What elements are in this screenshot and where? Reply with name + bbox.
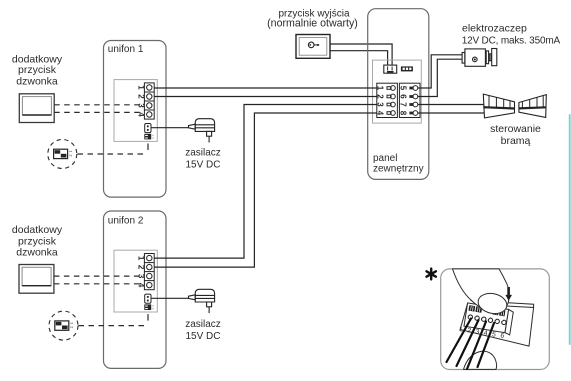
wire panel pin6 to strike <box>418 59 463 96</box>
svg-text:12V DC, maks. 350mA: 12V DC, maks. 350mA <box>462 36 561 47</box>
label sterowanie brama <box>490 123 541 147</box>
svg-text:1: 1 <box>137 256 146 261</box>
doorbell button B2 <box>19 265 54 294</box>
asterisk note marker <box>427 269 436 280</box>
DIP switch U2 <box>144 304 153 310</box>
svg-text:(normalnie otwarty): (normalnie otwarty) <box>267 17 358 29</box>
pin labels 1-4 panel <box>375 86 384 116</box>
power jack U2 <box>145 294 151 303</box>
svg-text:2: 2 <box>137 94 146 99</box>
keyhole terminal 1 <box>387 86 395 91</box>
label zasilacz 15V DC (top) <box>185 147 221 170</box>
dashed wire B2 to U2 pin 3 <box>54 275 144 277</box>
wire U2 jack to PSU Z2 <box>151 297 189 299</box>
dashed link U1 to switch S1 <box>78 153 147 155</box>
label przycisk wyjscia <box>267 9 358 30</box>
unifon U1 inner panel <box>114 80 157 142</box>
DIP switch SW panel <box>401 66 413 71</box>
label elektrozaczep <box>462 22 561 46</box>
svg-text:zewnętrzny: zewnętrzny <box>373 164 424 175</box>
svg-text:dzwonka: dzwonka <box>16 75 58 87</box>
svg-text:3: 3 <box>137 103 146 108</box>
electric strike E1 icon <box>462 49 497 67</box>
finger illustration <box>453 269 510 312</box>
svg-text:15V DC: 15V DC <box>185 159 220 170</box>
svg-text:elektrozaczep: elektrozaczep <box>462 22 527 34</box>
svg-text:15V DC: 15V DC <box>185 331 220 342</box>
keyhole terminal 2 <box>387 94 395 99</box>
unifon U1 enclosure <box>104 41 167 198</box>
pin labels 5-8 panel <box>399 86 408 116</box>
scroll indicator teal <box>569 114 571 345</box>
volume switch S1 dashed circle <box>48 140 77 169</box>
keyhole terminal 3 <box>387 102 395 107</box>
svg-text:unifon 2: unifon 2 <box>108 216 144 227</box>
label zasilacz 15V DC (bottom) <box>185 319 221 342</box>
DIP switch U1 <box>144 134 153 140</box>
wire PW to panel connector (upper) <box>330 44 392 65</box>
pin labels 1-4 U1 <box>137 85 146 117</box>
svg-text:4: 4 <box>137 112 146 117</box>
terminal strip right (5-8) <box>399 83 420 117</box>
svg-text:6: 6 <box>399 94 408 99</box>
unifon U2 enclosure <box>104 211 167 368</box>
panel inner plate <box>373 60 422 123</box>
wire U2 pin1 to panel pin3 <box>154 105 377 259</box>
svg-text:zasilacz: zasilacz <box>185 319 221 330</box>
wire panel pin8 to gate <box>418 112 485 114</box>
panel enclosure <box>368 9 429 180</box>
wire U1 jack to PSU Z1 <box>151 127 189 129</box>
dashed stub U1 bottom <box>147 144 149 151</box>
wire U1 pin2 to panel pin2 <box>154 96 377 98</box>
note wires x4 <box>447 319 495 370</box>
pin labels 1-4 U2 <box>137 256 146 288</box>
svg-text:bramą: bramą <box>501 135 531 147</box>
power jack U1 <box>145 124 151 133</box>
svg-text:8: 8 <box>399 111 408 116</box>
fingertip <box>476 291 508 316</box>
dashed link U2 to switch S2 <box>79 325 147 327</box>
svg-text:zasilacz: zasilacz <box>185 147 221 158</box>
terminal strip left (1-4) <box>377 83 398 117</box>
exit button PW icon <box>296 35 330 59</box>
arrow down <box>505 287 512 301</box>
terminal strip in note (tilted) <box>458 302 513 341</box>
svg-text:1: 1 <box>137 85 146 90</box>
key symbol <box>308 42 319 48</box>
doorbell button B1 <box>19 94 54 123</box>
volume switch S2 dashed circle <box>49 311 78 340</box>
keyhole terminal 8 <box>409 111 417 116</box>
svg-text:5: 5 <box>399 86 408 91</box>
svg-text:2: 2 <box>137 265 146 270</box>
terminal block U2 pins 1-4 <box>144 254 154 290</box>
mounting plate <box>460 301 533 347</box>
label dodatkowy przycisk dzwonka (bottom) <box>12 224 63 258</box>
wire panel pin7 to gate <box>418 104 485 106</box>
svg-text:7: 7 <box>399 102 408 107</box>
dashed stub U2 bottom <box>147 314 149 321</box>
keyhole terminal 7 <box>409 102 417 107</box>
svg-text:unifon 1: unifon 1 <box>108 44 144 55</box>
svg-text:przycisk: przycisk <box>18 64 57 76</box>
gate icon right wing <box>519 95 546 118</box>
keyhole terminal 4 <box>387 111 395 116</box>
svg-text:sterowanie: sterowanie <box>490 123 541 135</box>
svg-text:dzwonka: dzwonka <box>16 246 58 258</box>
wire panel pin5 to strike <box>418 55 463 88</box>
power supply Z2 (zasilacz) <box>189 289 215 313</box>
dashed wire B2 to U2 pin 4 <box>54 283 144 285</box>
gate icon left wing <box>483 94 514 118</box>
note frame <box>441 269 550 370</box>
dashed wire B1 to U1 pin 4 <box>54 111 143 113</box>
keyhole terminal 6 <box>409 94 417 99</box>
power supply Z1 (zasilacz) <box>189 119 215 143</box>
wire U2 pin2 to panel pin4 <box>154 113 377 267</box>
wire PW to panel connector (lower) <box>330 51 388 65</box>
wire U1 pin1 to panel pin1 <box>154 87 377 89</box>
terminal block U1 pins 1-4 <box>144 83 154 119</box>
connector J2 (exit button header) <box>384 65 397 73</box>
dashed wire B1 to U1 pin 3 <box>54 104 143 106</box>
thumb illustration <box>464 351 497 369</box>
keyhole terminal 5 <box>409 86 417 91</box>
unifon U2 inner panel <box>114 250 157 312</box>
label dodatkowy przycisk dzwonka (top) <box>12 53 63 87</box>
